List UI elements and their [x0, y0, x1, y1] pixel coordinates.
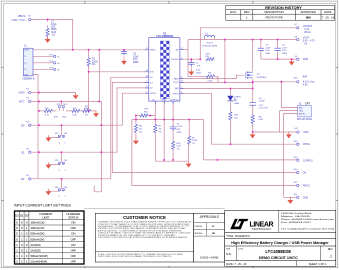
- svg-text:APPROVED: APPROVED: [300, 10, 316, 14]
- svg-text:PCB DES.: PCB DES.: [195, 226, 203, 228]
- svg-text:6.3V: 6.3V: [282, 50, 287, 52]
- svg-text:Si2333DS: Si2333DS: [257, 77, 267, 79]
- svg-text:D-: D-: [57, 56, 60, 58]
- svg-text:APPROVALS: APPROVALS: [200, 215, 219, 219]
- svg-text:22uF: 22uF: [265, 47, 271, 49]
- svg-text:D0: D0: [21, 123, 25, 127]
- svg-text:D1: D1: [20, 214, 24, 218]
- svg-text:GND: GND: [299, 111, 304, 113]
- svg-text:100uF: 100uF: [259, 101, 266, 103]
- svg-text:VBUS: VBUS: [150, 50, 156, 52]
- svg-text:PROG: PROG: [150, 93, 156, 95]
- svg-text:NTC: NTC: [19, 100, 25, 104]
- svg-text:100mA (1X): 100mA (1X): [30, 221, 44, 225]
- svg-text:ON: ON: [64, 133, 68, 135]
- svg-text:Fax: (408)434-0507: Fax: (408)434-0507: [281, 222, 312, 224]
- svg-text:4.35V - 5.5V: 4.35V - 5.5V: [11, 19, 25, 22]
- svg-text:High Efficiency Battery Charge: High Efficiency Battery Charger / USB Po…: [231, 241, 329, 245]
- svg-text:ON: ON: [64, 187, 68, 189]
- svg-text:VOUT: VOUT: [173, 82, 179, 84]
- svg-text:CHRG: CHRG: [173, 93, 179, 95]
- svg-text:3.3uH: 3.3uH: [207, 43, 213, 45]
- svg-text:SIZE: SIZE: [226, 248, 231, 250]
- svg-text:STATUS: STATUS: [68, 216, 78, 220]
- svg-text:CLPROG: CLPROG: [303, 160, 313, 163]
- svg-text:LPS4018-332M: LPS4018-332M: [202, 46, 217, 48]
- svg-text:SUPPLIED FOR USE WITH LINEAR T: SUPPLIED FOR USE WITH LINEAR TECHNOLOGY …: [98, 255, 173, 258]
- svg-text:CLPROG: CLPROG: [170, 100, 179, 102]
- svg-text:16V: 16V: [177, 129, 181, 131]
- svg-text:10: 10: [146, 70, 148, 72]
- svg-text:CHRG: CHRG: [303, 143, 310, 146]
- svg-text:REV: REV: [244, 10, 250, 14]
- svg-text:NTC: NTC: [150, 72, 155, 74]
- svg-text:2.5mA (HIGH): 2.5mA (HIGH): [30, 260, 47, 264]
- svg-text:LTC4088EDE: LTC4088EDE: [265, 249, 291, 254]
- svg-text:SCALE = NONE: SCALE = NONE: [200, 256, 219, 259]
- svg-text:9: 9: [181, 87, 182, 89]
- svg-text:CHRG: CHRG: [234, 96, 241, 98]
- svg-text:IC NO.: IC NO.: [238, 248, 244, 250]
- svg-text:100mA (1X): 100mA (1X): [30, 226, 44, 230]
- svg-text:1%: 1%: [159, 132, 162, 134]
- svg-text:1%: 1%: [85, 114, 88, 116]
- svg-text:OPT: OPT: [144, 109, 149, 111]
- svg-text:1A (10X): 1A (10X): [30, 248, 40, 252]
- svg-text:13: 13: [181, 81, 183, 83]
- svg-text:3: 3: [146, 91, 147, 93]
- svg-text:ON: ON: [71, 232, 75, 236]
- svg-text:100K: 100K: [84, 108, 90, 110]
- svg-text:OS-CON: OS-CON: [259, 107, 268, 109]
- svg-text:D1: D1: [21, 150, 25, 154]
- svg-text:1630 McCarthy Blvd.: 1630 McCarthy Blvd.: [281, 212, 313, 215]
- svg-text:LDO3V3: LDO3V3: [171, 59, 180, 61]
- svg-text:GRN: GRN: [234, 103, 239, 105]
- svg-text:SW: SW: [175, 50, 178, 52]
- svg-text:2.04K: 2.04K: [192, 140, 198, 142]
- svg-text:PROTOTYPE: PROTOTYPE: [265, 15, 282, 19]
- svg-text:OFF: OFF: [70, 226, 76, 230]
- svg-text:0402: 0402: [196, 72, 202, 74]
- svg-text:0805: 0805: [282, 53, 288, 55]
- svg-text:6.3V: 6.3V: [265, 50, 270, 52]
- svg-text:500mA (5X): 500mA (5X): [30, 237, 44, 241]
- svg-text:OPT: OPT: [206, 54, 211, 56]
- svg-text:1%: 1%: [177, 148, 180, 150]
- svg-text:TECHNOLOGY: TECHNOLOGY: [252, 228, 272, 231]
- svg-text:USBMINI-B: USBMINI-B: [22, 78, 35, 81]
- svg-text:0805: 0805: [133, 61, 139, 64]
- svg-text:25mA: 25mA: [304, 31, 311, 34]
- svg-text:500uA (SUSP): 500uA (SUSP): [30, 254, 47, 258]
- svg-text:2A: 2A: [304, 43, 307, 46]
- svg-text:1uF: 1uF: [197, 65, 201, 67]
- svg-text:OFF: OFF: [70, 254, 76, 258]
- svg-text:1: 1: [330, 254, 332, 258]
- svg-text:DESCRIPTION: DESCRIPTION: [265, 10, 284, 14]
- svg-text:GND: GND: [303, 196, 309, 199]
- svg-text:ECO: ECO: [230, 10, 237, 14]
- svg-text:D+: D+: [25, 63, 27, 65]
- svg-text:NTC: NTC: [63, 104, 68, 106]
- svg-text:22uF: 22uF: [282, 47, 288, 49]
- svg-text:8: 8: [181, 77, 182, 79]
- svg-text:MM: MM: [306, 15, 311, 19]
- svg-text:Milpitas, CA 95035: Milpitas, CA 95035: [281, 215, 312, 218]
- svg-text:1.0: 1.0: [52, 34, 56, 37]
- svg-text:LTC Confidential-For Customer: LTC Confidential-For Customer Use Only: [281, 227, 334, 230]
- svg-text:CUSTOMER NOTICE: CUSTOMER NOTICE: [123, 215, 166, 220]
- svg-text:VBUS: VBUS: [18, 14, 26, 18]
- svg-text:OFF: OFF: [70, 260, 76, 264]
- svg-text:12: 12: [181, 48, 183, 50]
- svg-text:1%: 1%: [192, 143, 195, 145]
- svg-text:GATE: GATE: [173, 77, 179, 80]
- svg-text:GND: GND: [303, 58, 309, 61]
- svg-text:PROG: PROG: [303, 185, 310, 188]
- svg-text:INPUT CURRENT LIMIT SETTINGS: INPUT CURRENT LIMIT SETTINGS: [14, 204, 71, 208]
- svg-text:BAT NC: BAT NC: [299, 113, 306, 116]
- svg-text:VBUS: VBUS: [24, 50, 30, 52]
- svg-text:GND: GND: [303, 131, 309, 134]
- svg-text:0805: 0805: [265, 53, 271, 55]
- svg-text:EXT: EXT: [54, 116, 59, 118]
- svg-text:GND: GND: [18, 91, 24, 95]
- svg-text:LTC4088EDE: LTC4088EDE: [156, 34, 173, 38]
- svg-text:LIMIT: LIMIT: [42, 216, 49, 220]
- svg-text:ON: ON: [64, 160, 68, 162]
- svg-text:Phone: (408)432-1900 www.lin: Phone: (408)432-1900 www.linear.com: [281, 219, 335, 221]
- svg-text:OPT: OPT: [305, 102, 311, 105]
- svg-text:ON: ON: [71, 243, 75, 247]
- svg-text:11: 11: [146, 48, 148, 50]
- svg-text:0402: 0402: [177, 132, 183, 134]
- svg-text:-: -: [233, 15, 234, 19]
- svg-text:GND: GND: [162, 100, 167, 102]
- svg-text:OFF: OFF: [70, 248, 76, 252]
- svg-text:APP ENG.: APP ENG.: [195, 232, 203, 235]
- svg-text:7 - 25 - 16: 7 - 25 - 16: [322, 15, 335, 19]
- svg-text:6.3V: 6.3V: [196, 70, 201, 72]
- svg-text:OK: OK: [303, 172, 307, 175]
- svg-text:OFF: OFF: [70, 237, 76, 241]
- svg-text:DATE: 7 - 25 - 16: DATE: 7 - 25 - 16: [226, 262, 247, 266]
- svg-text:DEMO CIRCUIT 1007C: DEMO CIRCUIT 1007C: [259, 256, 298, 260]
- svg-text:D0: D0: [25, 214, 29, 218]
- svg-text:0.1uF: 0.1uF: [177, 126, 183, 128]
- svg-text:1A (10X): 1A (10X): [30, 243, 40, 247]
- svg-text:ON: ON: [71, 221, 75, 225]
- svg-text:TECHNOLOGY APPLICATIONS ENGINE: TECHNOLOGY APPLICATIONS ENGINEERING FOR …: [98, 236, 189, 239]
- svg-text:0.5A: 0.5A: [303, 84, 308, 87]
- svg-text:REV.: REV.: [328, 248, 334, 251]
- svg-text:1: 1: [146, 81, 147, 83]
- svg-text:DF3-2P-2DSA: DF3-2P-2DSA: [297, 118, 313, 121]
- svg-text:GND: GND: [24, 74, 29, 76]
- svg-text:DATE: DATE: [324, 10, 331, 14]
- svg-text:1%: 1%: [139, 132, 142, 134]
- svg-text:500mA (5X): 500mA (5X): [30, 232, 44, 236]
- svg-text:8: 8: [181, 92, 182, 94]
- svg-text:D2: D2: [15, 214, 19, 218]
- svg-text:SHEET 1 OF 1: SHEET 1 OF 1: [309, 262, 327, 266]
- svg-text:N.R.: N.R.: [226, 252, 232, 256]
- svg-text:2: 2: [146, 86, 147, 88]
- svg-text:TITLE: SCHEMATIC: TITLE: SCHEMATIC: [226, 234, 250, 238]
- svg-text:BAT: BAT: [303, 75, 308, 78]
- svg-text:14: 14: [146, 75, 148, 77]
- svg-text:5: 5: [181, 57, 182, 59]
- svg-text:D2: D2: [21, 177, 25, 181]
